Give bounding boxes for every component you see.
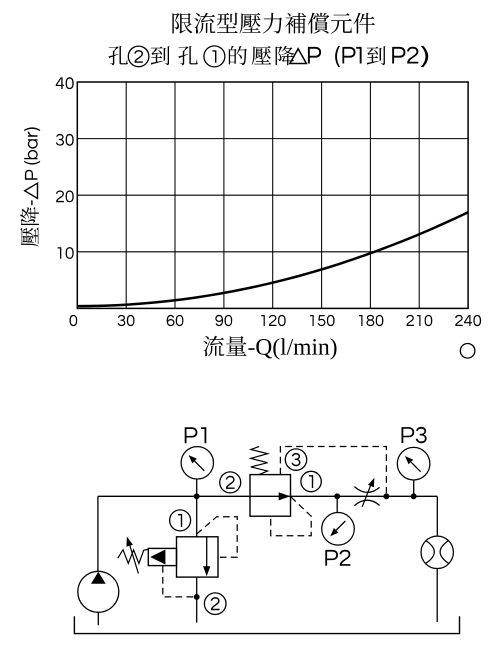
relief valve R1 body: [177, 537, 219, 577]
relief valve pilot actuator box: [148, 548, 176, 565]
label P3: [402, 427, 427, 443]
label P1: [185, 427, 207, 443]
pump: [78, 571, 119, 612]
title line 2: [109, 46, 128, 65]
y axis title: [20, 207, 39, 247]
relief valve drain line (dashed): [163, 566, 194, 597]
node: pilot junction: [384, 493, 390, 499]
compensator pilot to port 3 (dashed): [280, 447, 386, 494]
node: drain junction: [194, 594, 200, 600]
throttle adjust arrow: [362, 484, 371, 507]
label P2: [325, 550, 350, 566]
gauge P3: [397, 447, 430, 480]
wire: P2 stem: [336, 496, 338, 512]
wire: relief valve to tank: [196, 577, 198, 623]
y axis labels: [56, 77, 74, 89]
small circle marker: [460, 344, 475, 359]
relief valve spring: [118, 549, 148, 563]
relief valve pilot line (dashed): [197, 517, 238, 558]
gauge P2: [322, 513, 355, 546]
node: P2 junction: [334, 493, 340, 499]
wire: P3 stem: [413, 480, 415, 496]
node: bus/P1/relief junction: [194, 493, 200, 499]
throttle valve arcs: [354, 487, 379, 493]
relief valve flow arrow: [206, 537, 208, 567]
wire: relief valve feed: [196, 496, 198, 537]
port label 2 (relief): [204, 593, 226, 615]
wire: main bus: [98, 495, 437, 497]
wire: left drop to pump: [97, 496, 99, 571]
port label 3 (compensator): [285, 449, 306, 470]
gauge P1: [181, 447, 213, 479]
chart grid: [125, 82, 127, 308]
flow meter: [421, 536, 453, 568]
port label 2 (compensator): [220, 472, 241, 493]
x axis title: [204, 336, 247, 357]
compensator flow arrow: [279, 492, 291, 500]
wire: pump to tank: [97, 612, 99, 625]
compensator spring: [251, 447, 268, 475]
title line 1: [172, 13, 375, 34]
port label 1 (relief): [170, 510, 191, 531]
chart border: [77, 82, 468, 308]
wire: P1 stem: [196, 479, 198, 496]
x axis labels: [70, 315, 78, 326]
chart curve: [77, 212, 468, 306]
tank: [74, 616, 459, 633]
relief valve spring adjust arrow: [129, 541, 139, 574]
node: P3 junction: [411, 493, 417, 499]
wire: right drop: [436, 496, 438, 536]
compensator load-sense loop (dashed): [271, 497, 312, 536]
port label 1 (compensator): [301, 471, 321, 491]
wire: flow meter to tank: [436, 569, 438, 623]
compensator valve body: [250, 475, 291, 517]
